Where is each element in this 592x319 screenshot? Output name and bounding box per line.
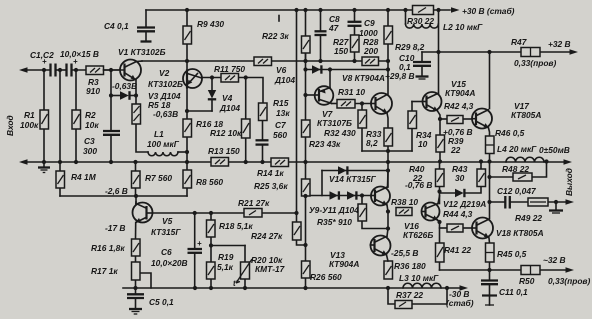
wire diode row y=69.5	[306, 69, 389, 71]
svg-text:30: 30	[455, 173, 465, 183]
diode V6	[312, 65, 321, 73]
resistor R22	[302, 36, 311, 53]
wire R8 leads	[186, 162, 188, 170]
junction (111,162)	[109, 160, 113, 164]
wire	[43, 129, 45, 162]
capacitor C12	[505, 196, 510, 209]
resistor R9	[183, 26, 192, 44]
svg-text:R42 4,3: R42 4,3	[444, 101, 474, 111]
junction (320.5,10)	[318, 8, 322, 12]
junction (447,288)	[445, 286, 449, 290]
svg-text:47: 47	[328, 23, 339, 33]
svg-text:R1: R1	[24, 110, 35, 120]
inductor L2	[406, 24, 439, 28]
arrow zobel out	[566, 199, 575, 205]
wire C4 lead	[145, 10, 147, 27]
resistor R7	[132, 171, 141, 188]
resistor R38	[396, 208, 412, 216]
resistor R28	[362, 57, 379, 66]
node column B x=305.5	[305, 10, 307, 36]
svg-text:R25 3,6к: R25 3,6к	[254, 181, 288, 191]
resistor R50 0.33 fuse	[521, 266, 540, 275]
svg-text:R36 180: R36 180	[394, 261, 426, 271]
svg-text:+30 В (стаб): +30 В (стаб)	[462, 6, 515, 16]
svg-text:R35* 910: R35* 910	[317, 217, 352, 227]
svg-text:R29 8,2: R29 8,2	[395, 42, 425, 52]
resistor R45 0.5 wirewound	[486, 243, 495, 262]
junction (439.5,222)	[437, 220, 441, 224]
resistor R12	[242, 119, 251, 138]
svg-text:R37 22: R37 22	[396, 290, 423, 300]
wire R34 leads	[411, 129, 413, 152]
inductor L3	[403, 283, 441, 288]
wire bias row y=196	[306, 195, 372, 197]
wire input bottom / feedback rail y=162	[26, 161, 564, 163]
wire input top y=70	[26, 69, 50, 71]
wire zobel ground stub	[555, 202, 557, 210]
resistor R40	[436, 169, 445, 187]
wire zobel row y=202	[490, 201, 505, 203]
wire R4 leads	[59, 162, 61, 171]
wire	[57, 69, 66, 71]
svg-text:-25,5 В: -25,5 В	[391, 248, 418, 258]
arrow input top	[19, 67, 28, 73]
transistor V2	[183, 69, 202, 89]
transistor V18	[472, 218, 493, 239]
svg-text:R18 5,1к: R18 5,1к	[219, 221, 253, 231]
junction (296.5,213)	[294, 211, 298, 215]
wire R15/C7 column x=262.5	[262, 121, 264, 140]
junction (354.5,10)	[352, 8, 356, 12]
svg-text:R41 22: R41 22	[444, 245, 471, 255]
junction (245.7,162)	[244, 160, 248, 164]
wire V7 base	[306, 94, 316, 96]
junction (354.5,61)	[352, 59, 356, 63]
wire	[305, 137, 307, 179]
resistor R47 0.33 fuse	[521, 48, 540, 57]
transistor V14	[371, 171, 390, 206]
wire	[305, 196, 307, 261]
capacitor C10	[413, 62, 431, 66]
wire V18 emitter	[488, 238, 491, 243]
wire x=111 column C3	[110, 70, 112, 130]
svg-text:R26 560: R26 560	[310, 272, 342, 282]
wire R41 bottom	[439, 262, 441, 270]
junction (187,10)	[185, 8, 189, 12]
svg-text:V4: V4	[222, 93, 233, 103]
junction (44,162)	[42, 160, 46, 164]
junction (212,77.5)	[210, 75, 214, 79]
resistor R29	[384, 26, 393, 44]
ground at C10	[416, 77, 429, 80]
wire R20 leads	[244, 246, 246, 263]
svg-text:10к: 10к	[85, 120, 99, 130]
wire R7 leads	[135, 162, 137, 171]
junction (481,161.5)	[479, 159, 483, 163]
wire R37 bypass loop	[388, 288, 395, 304]
resistor R17	[132, 262, 141, 280]
svg-text:R8 560: R8 560	[196, 177, 223, 187]
junction (111,70)	[109, 68, 113, 72]
svg-text:С9: С9	[364, 18, 375, 28]
inductor L1	[148, 152, 178, 156]
wire V1 emitter	[135, 80, 137, 96]
resistor R41	[436, 243, 445, 262]
arrow +32V	[570, 49, 579, 55]
junction (305.5,288)	[303, 286, 307, 290]
svg-text:-0,76 В: -0,76 В	[405, 180, 432, 190]
svg-text:V5: V5	[162, 216, 173, 226]
junction (195,288)	[193, 286, 197, 290]
resistor R30	[413, 6, 434, 15]
svg-text:R30 22: R30 22	[407, 16, 434, 26]
wire R46 bottom	[489, 154, 491, 162]
junction (489.5,177)	[487, 175, 491, 179]
junction (305.5,95)	[303, 93, 307, 97]
wire L1 right	[178, 151, 187, 153]
junction (76,162)	[74, 160, 78, 164]
wire top rail +30V y=10	[146, 9, 450, 11]
svg-text:КТ3102Б: КТ3102Б	[148, 79, 183, 89]
junction (211,288)	[209, 286, 213, 290]
junction (211,245.5)	[209, 243, 213, 247]
resistor R18	[207, 220, 216, 237]
wire V2 emitter down	[186, 86, 188, 120]
diode V9	[338, 166, 347, 174]
wire x=44 column	[43, 70, 45, 110]
wire R12 column x=246	[245, 78, 247, 120]
resistor R44	[447, 224, 463, 232]
wire R9 column x=187	[186, 10, 188, 26]
svg-text:R48 22: R48 22	[502, 164, 529, 174]
svg-text:150: 150	[334, 46, 348, 56]
resistor R31	[337, 100, 355, 109]
svg-text:С1,С2: С1,С2	[30, 50, 54, 60]
resistor R20 thermistor KMT-17	[236, 259, 252, 283]
svg-text:V2: V2	[159, 68, 170, 78]
svg-text:V1 КТ3102Б: V1 КТ3102Б	[118, 47, 166, 57]
wire V16 collector	[439, 192, 441, 204]
diode V12	[455, 189, 464, 197]
svg-text:КТ904А: КТ904А	[445, 88, 475, 98]
junction (439.5,191.5)	[437, 189, 441, 193]
wire	[305, 53, 307, 120]
wire V5 output row y=213	[153, 212, 297, 214]
transistor V15	[422, 92, 441, 111]
svg-text:L1: L1	[154, 129, 164, 139]
svg-text:R13 150: R13 150	[208, 146, 240, 156]
wire bottom rail y=288	[123, 287, 460, 289]
wire R45 bottom	[489, 262, 491, 270]
wire V14 collector column	[387, 162, 389, 188]
wire R39 leads	[439, 119, 441, 135]
wire V2 base from rail	[186, 61, 188, 72]
svg-text:0,33(пров): 0,33(пров)	[514, 58, 556, 68]
junction (330,69.5)	[328, 67, 332, 71]
svg-text:10,0×15 В: 10,0×15 В	[60, 49, 99, 59]
transistor V7	[315, 86, 334, 105]
svg-text:R44 4,3: R44 4,3	[443, 209, 473, 219]
svg-text:С4 0,1: С4 0,1	[104, 21, 129, 31]
wire L2 stubs	[405, 10, 407, 24]
wire	[73, 69, 121, 71]
arrow output	[564, 159, 573, 165]
svg-text:С12 0,047: С12 0,047	[497, 186, 536, 196]
resistor R3	[86, 66, 104, 75]
svg-text:R14 1к: R14 1к	[257, 168, 284, 178]
svg-text:R32 430: R32 430	[324, 128, 356, 138]
wire	[75, 129, 77, 162]
svg-text:R47: R47	[511, 37, 527, 47]
wire V17 collector column x=489.5	[489, 52, 491, 109]
svg-text:R11 750: R11 750	[214, 64, 245, 74]
junction (489.5,270)	[487, 268, 491, 272]
junction (405.5,10)	[403, 8, 407, 12]
svg-text:0±50мВ: 0±50мВ	[539, 145, 570, 155]
svg-text:8,2: 8,2	[366, 138, 378, 148]
svg-text:L2 10 мкГ: L2 10 мкГ	[443, 22, 483, 32]
arrow +30V stab	[451, 7, 460, 13]
junction (388,170.5)	[386, 168, 390, 172]
svg-text:22: 22	[450, 145, 461, 155]
wire R44 row y=228	[440, 227, 448, 229]
svg-text:-2,6 В: -2,6 В	[105, 186, 128, 196]
junction (135.5,162)	[133, 160, 137, 164]
junction (489.5,52)	[487, 50, 491, 54]
svg-text:-0,63В: -0,63В	[153, 109, 178, 119]
junction (489.5,202)	[487, 200, 491, 204]
resistor R27	[351, 35, 360, 52]
junction (440,119)	[438, 117, 442, 121]
svg-text:R38 10: R38 10	[391, 197, 418, 207]
junction (388,151)	[386, 149, 390, 153]
wire R35 leads	[361, 196, 363, 205]
wire C6 leads	[194, 213, 196, 248]
wire C3 R2 R1 region done above; ground stub at x=44	[43, 162, 45, 167]
wire V4 leads	[211, 78, 213, 90]
wire C9/R27 leads x=354.5	[354, 10, 356, 21]
junction (187,162)	[185, 160, 189, 164]
resistor R32	[358, 110, 367, 128]
junction (388,10)	[386, 8, 390, 12]
svg-text:R2: R2	[85, 110, 96, 120]
capacitor C1	[42, 57, 56, 77]
resistor R4	[56, 171, 65, 188]
diode V11	[347, 191, 356, 199]
capacitor C9	[348, 22, 362, 26]
svg-text:R50: R50	[519, 276, 535, 286]
svg-text:300: 300	[83, 146, 97, 156]
wire R40 leads	[439, 162, 441, 170]
svg-text:R23 43к: R23 43к	[309, 139, 341, 149]
capacitor C3	[103, 131, 120, 135]
wire diode V9 row y=170.5	[321, 171, 323, 196]
wire +32V feed y=52	[422, 51, 570, 53]
resistor R14	[271, 158, 289, 167]
junction (245.7,77.5)	[244, 75, 248, 79]
svg-text:R4 1М: R4 1М	[71, 172, 97, 182]
junction (111,95.5)	[109, 93, 113, 97]
svg-text:200: 200	[363, 46, 378, 56]
arrow input bottom	[19, 159, 28, 165]
resistor R6	[183, 119, 192, 137]
wire x=388 spine top	[387, 10, 389, 26]
junction (489.5,161.5)	[487, 159, 491, 163]
junction (76,70)	[74, 68, 78, 72]
wire R43 top	[480, 162, 482, 170]
capacitor C5	[127, 294, 144, 298]
junction (60,70)	[58, 68, 62, 72]
diode V3	[120, 91, 130, 100]
arrow -32V	[566, 267, 575, 273]
junction (262.5,162)	[260, 160, 264, 164]
wire R22 leads	[305, 53, 307, 61]
wire R32 leads	[361, 104, 363, 111]
resistor R21	[244, 209, 262, 218]
resistor R5	[132, 104, 141, 124]
transistor V1	[104, 60, 143, 81]
capacitor C2	[67, 57, 79, 77]
svg-text:R19: R19	[218, 252, 234, 262]
svg-text:560: 560	[273, 130, 287, 140]
transistor V17	[472, 109, 492, 129]
wire V14 emitter	[387, 205, 388, 229]
svg-text:Вход: Вход	[5, 115, 15, 136]
junction (362,195.5)	[360, 193, 364, 197]
resistor R37	[395, 301, 412, 309]
wire -32V rail y=270	[440, 269, 567, 271]
wire y=151 row R32-R34	[362, 150, 412, 152]
wire V15 emitter to R42/R39	[438, 111, 441, 119]
svg-text:R22 3к: R22 3к	[262, 31, 289, 41]
wire V18 collector column	[489, 177, 491, 219]
resistor R43	[477, 169, 486, 187]
svg-text:R12 10к: R12 10к	[210, 128, 242, 138]
wire R33 bottom	[387, 146, 389, 162]
resistor R48	[513, 173, 532, 181]
svg-text:~32 В: ~32 В	[543, 255, 566, 265]
resistor R2	[72, 110, 81, 129]
svg-text:t°: t°	[233, 279, 240, 288]
svg-text:V14 КТ315Г: V14 КТ315Г	[329, 174, 377, 184]
svg-text:R21 27к: R21 27к	[238, 198, 270, 208]
svg-text:КМТ-17: КМТ-17	[255, 264, 285, 274]
svg-text:100к: 100к	[20, 120, 39, 130]
ground bar under C11	[485, 304, 494, 306]
svg-text:R24 27к: R24 27к	[251, 231, 283, 241]
wire x=76 column	[75, 70, 77, 110]
ground at C5	[129, 309, 142, 314]
svg-text:КТ3107Б: КТ3107Б	[317, 118, 352, 128]
junction (296.5,10)	[294, 8, 298, 12]
wire V15 collector column x=438.5	[438, 52, 440, 93]
junction (305.5,10)	[303, 8, 307, 12]
svg-text:5,1к: 5,1к	[217, 262, 234, 272]
svg-text:R9 430: R9 430	[197, 19, 224, 29]
junction (135.5,288)	[133, 286, 137, 290]
svg-text:-17 В: -17 В	[105, 223, 125, 233]
ground at zobel R49	[549, 211, 563, 214]
svg-text:(стаб): (стаб)	[446, 298, 474, 308]
transistor V5	[133, 202, 153, 223]
resistor R49	[528, 198, 548, 206]
svg-text:R46 0,5: R46 0,5	[495, 128, 525, 138]
transistor V16	[422, 196, 440, 221]
junction (388,162)	[386, 160, 390, 164]
node column A x=296.5	[296, 10, 298, 222]
svg-text:R17 1к: R17 1к	[91, 266, 118, 276]
wire R18 leads	[210, 213, 212, 220]
junction (187,152)	[185, 150, 189, 154]
wire -2.6V row y=196	[60, 195, 187, 197]
junction (136,95.5)	[134, 93, 138, 97]
svg-text:КТ904А: КТ904А	[329, 259, 359, 269]
svg-text:V8 КТ904А: V8 КТ904А	[342, 73, 385, 83]
junction (211,213)	[209, 211, 213, 215]
resistor R25	[302, 179, 311, 196]
svg-text:+: +	[197, 239, 202, 248]
wire R6 bottom	[186, 137, 188, 162]
capacitor C4	[137, 28, 155, 42]
wire V7 emitter up	[329, 70, 331, 89]
resistor R33	[384, 128, 393, 146]
resistor R10	[254, 57, 272, 66]
resistor R39	[436, 135, 445, 152]
junction (60,162)	[58, 160, 62, 164]
svg-text:+29,8 В: +29,8 В	[385, 71, 415, 81]
wire R31 to V8 base	[332, 103, 338, 105]
svg-text:С7: С7	[275, 120, 286, 130]
resistor R15	[259, 103, 268, 121]
wire V8 collector	[387, 70, 389, 95]
junction (556,202)	[554, 200, 558, 204]
svg-text:910: 910	[86, 86, 100, 96]
wire	[322, 170, 388, 172]
wire R17 side stub	[140, 273, 152, 288]
wire V16 emitter node	[438, 220, 440, 243]
junction (305.5,162)	[303, 160, 307, 164]
svg-text:У9-У11 Д104: У9-У11 Д104	[309, 205, 359, 215]
wire rail y=61 V1 collector line	[142, 60, 388, 62]
wire column A jog to B	[297, 240, 306, 245]
wire V15 base	[412, 101, 423, 103]
wire C5 leads	[135, 288, 137, 294]
resistor R19	[207, 262, 216, 279]
junction (194.7,213)	[193, 211, 197, 215]
resistor R8	[183, 170, 192, 188]
svg-text:100 мкГ: 100 мкГ	[147, 139, 180, 149]
wire V5 base	[135, 196, 137, 204]
wire R5 top	[135, 96, 137, 105]
svg-text:Д104: Д104	[219, 103, 240, 113]
inductor L4	[506, 157, 544, 162]
resistor R13	[211, 158, 229, 167]
wire V3 to V1 emitter node	[130, 95, 137, 97]
svg-text:R31 10: R31 10	[338, 87, 365, 97]
capacitor C7	[256, 140, 269, 144]
ground at input R1	[38, 168, 50, 173]
svg-text:КТ315Г: КТ315Г	[151, 227, 181, 237]
svg-text:V12 Д219А: V12 Д219А	[443, 199, 486, 209]
svg-text:Выход: Выход	[564, 168, 574, 196]
junction (388,61)	[386, 59, 390, 63]
resistor R24	[293, 222, 302, 240]
junction (187,61)	[185, 59, 189, 63]
wire V5 emitter to R16 R17 C5	[135, 223, 137, 240]
junction (388,228.5)	[386, 226, 390, 230]
svg-text:С11 0,1: С11 0,1	[499, 287, 528, 297]
svg-text:R15: R15	[273, 98, 289, 108]
